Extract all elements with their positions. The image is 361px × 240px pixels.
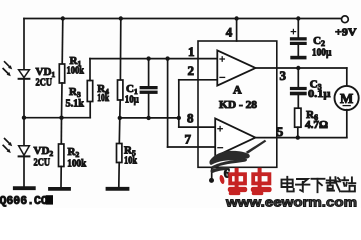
capacitor C3 bbox=[297, 68, 299, 87]
wire R3 top to pin1 rail bbox=[89, 59, 91, 81]
node rail-C2 junction bbox=[296, 16, 300, 20]
op-amp A upper triangle bbox=[217, 50, 255, 85]
wire input node to R3 bbox=[24, 117, 90, 119]
svg-text:KD - 28: KD - 28 bbox=[219, 100, 257, 111]
resistor R1 bbox=[59, 64, 64, 83]
svg-text:2: 2 bbox=[188, 63, 195, 78]
wire VD1 column top bbox=[23, 19, 25, 70]
resistor R6 bbox=[295, 108, 301, 127]
wire pin1 to pin7 link bbox=[167, 59, 169, 147]
wire motor bottom lead bbox=[346, 110, 348, 138]
node input junction at R1/R2 bbox=[59, 116, 63, 120]
svg-text:2CU: 2CU bbox=[34, 157, 51, 169]
svg-text:100k: 100k bbox=[67, 65, 85, 77]
resistor R5 bbox=[117, 144, 122, 163]
capacitor C2 bbox=[297, 19, 299, 38]
resistor R2 bbox=[59, 144, 64, 167]
svg-text:4: 4 bbox=[226, 25, 233, 40]
wire R1 top lead bbox=[61, 19, 64, 65]
wire VD1-VD2 bbox=[23, 79, 25, 146]
wire pin1 net (R3/C1 top to op-amp + input) bbox=[90, 58, 217, 60]
node rail-R4 junction bbox=[119, 16, 123, 20]
svg-text:2CU: 2CU bbox=[36, 77, 53, 89]
svg-text:5: 5 bbox=[277, 124, 284, 139]
svg-text:10k: 10k bbox=[97, 92, 110, 104]
svg-text:M: M bbox=[340, 92, 353, 107]
wire pin4 supply lead bbox=[236, 19, 238, 42]
wire R2 top lead bbox=[60, 118, 62, 144]
watermark red bug characters bbox=[219, 170, 272, 195]
wire R5 to ground bbox=[118, 163, 120, 188]
wire top supply rail bbox=[24, 18, 341, 20]
ground for R5 bbox=[108, 187, 128, 191]
watermark hat logo bbox=[209, 140, 266, 173]
svg-text:www.eeworm.com: www.eeworm.com bbox=[225, 195, 357, 208]
node pin3/C2/C3 junction bbox=[296, 66, 300, 70]
wire R4 top lead bbox=[119, 19, 121, 81]
capacitor C1 bbox=[148, 59, 150, 86]
svg-text:Q606.CO: Q606.CO bbox=[0, 195, 48, 208]
svg-text:10µ: 10µ bbox=[125, 94, 140, 106]
svg-text:0.1µ: 0.1µ bbox=[308, 88, 331, 100]
ground for R2 bbox=[50, 187, 69, 191]
svg-text:10k: 10k bbox=[124, 155, 138, 167]
ground for VD2 bbox=[15, 186, 34, 190]
node C1 bottom junction bbox=[146, 116, 150, 120]
svg-text:4.7Ω: 4.7Ω bbox=[305, 119, 328, 131]
photodiode VD1 bbox=[19, 70, 30, 78]
svg-text:100µ: 100µ bbox=[312, 47, 332, 59]
+9V terminal bbox=[342, 16, 349, 23]
svg-text:7: 7 bbox=[185, 132, 192, 147]
wire R1 bottom lead bbox=[61, 83, 64, 118]
wire node B to pin8 bbox=[178, 118, 180, 127]
node input junction at VD column bbox=[22, 116, 26, 120]
svg-text:+9V: +9V bbox=[335, 27, 357, 39]
node B end junction bbox=[177, 116, 181, 120]
photodiode VD2 bbox=[19, 146, 30, 155]
node pin7 branch junction bbox=[165, 56, 169, 60]
svg-text:8: 8 bbox=[187, 111, 194, 126]
node C1 top junction bbox=[146, 56, 150, 60]
wire pin6 stub bbox=[211, 167, 213, 178]
resistor R3 bbox=[87, 81, 92, 102]
wire motor top lead bbox=[346, 68, 348, 86]
node rail-R1 junction bbox=[61, 16, 65, 20]
svg-text:1: 1 bbox=[188, 44, 195, 59]
wire R4 bottom lead bbox=[119, 100, 121, 118]
wire VD2 to ground bbox=[23, 156, 25, 186]
resistor R4 bbox=[118, 80, 123, 100]
wire R2 to ground bbox=[60, 167, 62, 188]
wire node B to pin2 bbox=[178, 80, 180, 118]
svg-text:A: A bbox=[233, 83, 242, 97]
svg-text:3: 3 bbox=[280, 68, 287, 83]
svg-text:5.1k: 5.1k bbox=[66, 98, 85, 110]
wire node B (R4/C1 bottom/R5) bbox=[120, 117, 179, 119]
watermark text dianzi xiazai zhan bbox=[282, 177, 356, 192]
wire pin3 output net bbox=[256, 67, 347, 69]
node pin5/R6 junction bbox=[296, 135, 300, 139]
node B junction R4/R5 bbox=[118, 116, 122, 120]
op-amp lower triangle bbox=[215, 118, 255, 156]
motor M bbox=[335, 86, 359, 110]
node rail-pin4 junction bbox=[234, 16, 238, 20]
op-amp U1 KD-28 package box bbox=[198, 41, 277, 167]
wire pin5 output net bbox=[255, 137, 346, 139]
wire R5 top lead bbox=[118, 118, 121, 144]
svg-text:100k: 100k bbox=[67, 158, 87, 170]
